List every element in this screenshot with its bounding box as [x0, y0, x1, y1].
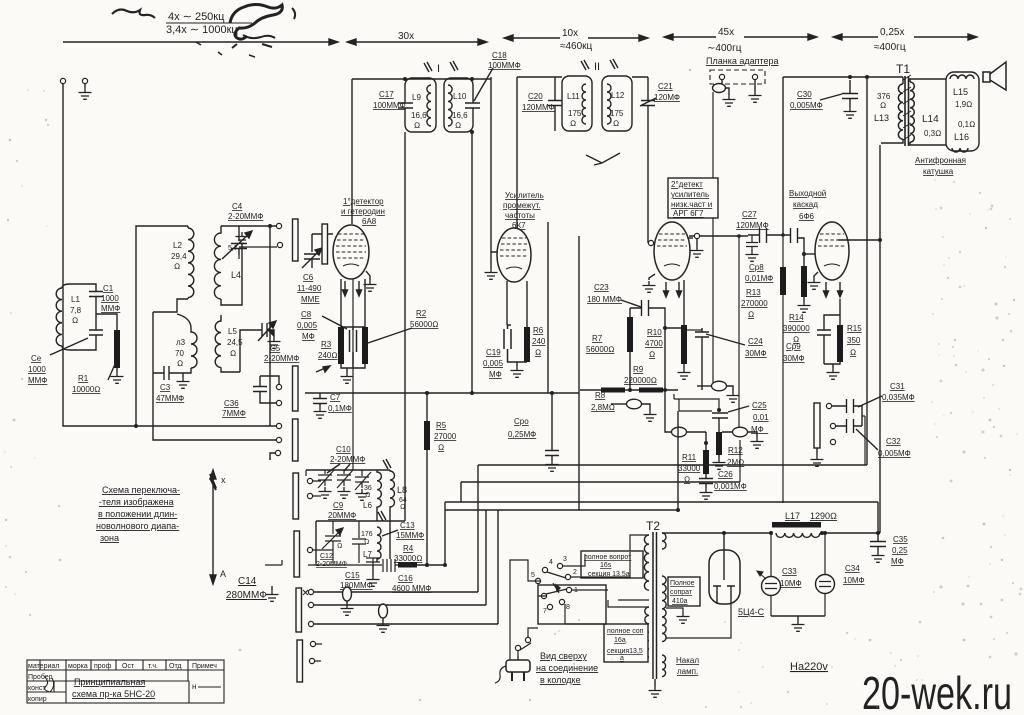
- svg-text:∼400гц: ∼400гц: [707, 43, 742, 54]
- ground 6K7 grid: [491, 252, 497, 268]
- switch wafer 7: [297, 640, 303, 682]
- svg-text:R15: R15: [847, 324, 862, 333]
- IF transformer I left box: [405, 78, 436, 132]
- svg-text:I: I: [437, 63, 440, 75]
- capacitor C18: [465, 103, 480, 109]
- ground C26: [700, 488, 713, 499]
- switch contact D: [276, 384, 281, 389]
- ground Cpo: [546, 460, 559, 471]
- pointer C23: [621, 300, 641, 307]
- svg-text:Ω: Ω: [613, 119, 619, 128]
- label 45x 400gc: [707, 25, 744, 54]
- svg-text:175: 175: [568, 109, 582, 118]
- C33 arrow: [757, 571, 766, 579]
- svg-text:10000Ω: 10000Ω: [72, 385, 100, 394]
- svg-text:С13: С13: [400, 521, 415, 530]
- svg-text:С35: С35: [893, 535, 908, 544]
- svg-text:С33: С33: [782, 567, 797, 576]
- svg-text:240Ω: 240Ω: [318, 351, 338, 360]
- wire C6 grid: [312, 233, 333, 235]
- coil L10: [448, 85, 452, 126]
- ground 6K7 cathode: [511, 366, 524, 377]
- coil L15: [950, 75, 974, 79]
- svg-text:Ω: Ω: [535, 348, 541, 357]
- svg-text:5: 5: [531, 572, 535, 579]
- bus y510: [445, 509, 678, 511]
- svg-text:Ост: Ост: [122, 663, 135, 670]
- svg-text:0,005: 0,005: [483, 359, 504, 368]
- ground 6A8: [366, 271, 370, 280]
- selector levers: [546, 572, 567, 594]
- svg-text:С15: С15: [345, 571, 360, 580]
- wire C31 to bus: [862, 416, 865, 465]
- svg-text:Ω: Ω: [748, 310, 754, 319]
- svg-text:6Ф6: 6Ф6: [799, 212, 815, 221]
- svg-text:56000Ω: 56000Ω: [410, 320, 438, 329]
- svg-text:1°детектор: 1°детектор: [343, 197, 384, 206]
- wire C21 down to 6G7 grid: [647, 131, 649, 243]
- svg-text:1290Ω: 1290Ω: [810, 511, 837, 521]
- svg-text:7ММФ: 7ММФ: [222, 409, 246, 418]
- svg-text:0,1МФ: 0,1МФ: [328, 404, 352, 413]
- label 4x 250kc: [166, 11, 252, 36]
- svg-text:4x ∼ 250кц: 4x ∼ 250кц: [168, 11, 225, 23]
- svg-text:проф: проф: [94, 663, 112, 670]
- pointer C21: [640, 98, 656, 106]
- svg-text:0,005: 0,005: [297, 321, 318, 330]
- pointer C30: [820, 94, 842, 100]
- svg-text:410а: 410а: [672, 598, 688, 605]
- ground adapter left: [723, 95, 736, 106]
- svg-text:L12: L12: [611, 91, 625, 100]
- T2 secondary top: [662, 533, 666, 549]
- pointer R2: [368, 328, 412, 343]
- svg-text:L13: L13: [874, 113, 889, 123]
- svg-text:С32: С32: [886, 437, 901, 446]
- wave switch mark: [586, 153, 620, 165]
- svg-text:x: x: [221, 475, 226, 485]
- svg-text:L15: L15: [953, 87, 968, 97]
- svg-text:С4: С4: [232, 202, 243, 211]
- wire cathode bottom: [341, 364, 365, 368]
- core mark L6: [383, 459, 391, 469]
- label winding2: [604, 624, 648, 662]
- svg-text:Сро: Сро: [514, 417, 529, 426]
- svg-text:МФ: МФ: [302, 332, 315, 341]
- wire stage2 box right: [547, 222, 549, 393]
- wire L5 to C5: [240, 330, 255, 372]
- svg-text:220000Ω: 220000Ω: [624, 376, 657, 385]
- node dot L2 bus: [134, 424, 138, 428]
- capacitor C7: [313, 393, 327, 407]
- IF transformer I right box: [444, 78, 473, 132]
- core mark L7: [378, 511, 386, 521]
- pointer C32: [856, 429, 878, 450]
- capacitor C32: [836, 419, 862, 433]
- svg-text:Накал: Накал: [676, 656, 699, 665]
- wire L6 bottom: [376, 511, 378, 521]
- svg-text:350: 350: [847, 336, 861, 345]
- svg-text:≈400гц: ≈400гц: [874, 42, 906, 53]
- capacitor C4 variable: [222, 226, 252, 259]
- wire AVC net: [674, 394, 719, 411]
- svg-text:-теля изображена: -теля изображена: [99, 497, 174, 507]
- svg-text:3,4x ∼ 1000кц: 3,4x ∼ 1000кц: [166, 24, 238, 36]
- svg-text:Вид сверху: Вид сверху: [540, 651, 587, 661]
- core marks II: [581, 59, 618, 70]
- svg-text:н: н: [192, 682, 196, 691]
- svg-text:полное соп: полное соп: [607, 628, 644, 635]
- switch wafer 5: [294, 531, 300, 577]
- contacts wafer7: [310, 641, 315, 646]
- coil L16: [952, 148, 968, 152]
- line y592: [314, 591, 478, 593]
- ground cathode: [346, 368, 348, 372]
- resistor R6: [524, 327, 530, 362]
- wire x405 lower: [404, 521, 406, 559]
- svg-text:7: 7: [543, 608, 547, 615]
- svg-text:Примеч: Примеч: [192, 663, 217, 670]
- line y624: [314, 510, 498, 624]
- svg-text:L11: L11: [567, 92, 580, 101]
- resistor R11: [703, 450, 709, 474]
- variable capacitor C12: [322, 521, 343, 563]
- x mark: [303, 590, 308, 595]
- wire contact E: [270, 453, 276, 460]
- wire choke out: [821, 532, 878, 534]
- bus y502: [445, 501, 878, 503]
- svg-text:Ω: Ω: [649, 350, 655, 359]
- svg-text:390000: 390000: [783, 324, 810, 333]
- svg-text:8: 8: [566, 604, 570, 611]
- svg-text:усилитель: усилитель: [671, 190, 709, 199]
- svg-text:100ММФ: 100ММФ: [488, 61, 521, 70]
- ground terminal: [82, 78, 87, 83]
- capacitor C20: [548, 77, 562, 131]
- svg-text:С19: С19: [486, 348, 501, 357]
- svg-text:0,01МФ: 0,01МФ: [745, 274, 773, 283]
- wire adapter down: [712, 92, 714, 386]
- svg-text:С3: С3: [160, 383, 171, 392]
- bus y393: [305, 392, 579, 394]
- adapter contact left: [719, 74, 724, 79]
- svg-text:Ω: Ω: [230, 349, 236, 358]
- svg-text:30x: 30x: [398, 31, 414, 42]
- coil L8: [390, 470, 395, 511]
- ground L3: [182, 373, 184, 377]
- wire C23 node: [630, 308, 665, 390]
- svg-text:L9: L9: [412, 93, 421, 102]
- mains cord: [495, 666, 506, 683]
- scan smudge top-left: [112, 10, 155, 18]
- ground under terminal: [84, 84, 86, 88]
- resistor R12: [716, 432, 722, 455]
- svg-text:частоты: частоты: [505, 211, 535, 220]
- svg-text:С30: С30: [797, 90, 812, 99]
- coil L13: [898, 84, 903, 139]
- capacitor Cpo: [545, 393, 559, 460]
- dimension arrow 45x: [664, 34, 817, 40]
- tube 6G7 grid pin: [648, 240, 653, 245]
- svg-text:33000Ω: 33000Ω: [394, 554, 422, 563]
- svg-text:0,25: 0,25: [892, 546, 908, 555]
- svg-text:L8: L8: [397, 485, 407, 495]
- pointer C13: [382, 530, 398, 536]
- adapter jack: [721, 80, 723, 84]
- coil L11: [582, 84, 586, 124]
- transformer T1 core: [905, 76, 909, 146]
- svg-text:в колодке: в колодке: [540, 675, 581, 685]
- speaker coil box: [946, 72, 979, 151]
- svg-text:Ср8: Ср8: [749, 263, 764, 272]
- bus y482: [461, 481, 740, 483]
- dimension arrow 4x~250kc: [63, 39, 338, 45]
- svg-text:2,8МΩ: 2,8МΩ: [591, 403, 615, 412]
- svg-text:20-wek.ru: 20-wek.ru: [862, 667, 1012, 715]
- svg-text:ММФ: ММФ: [101, 304, 120, 313]
- coil L9: [427, 85, 431, 126]
- T2 primary lower: [645, 607, 649, 657]
- node dot plate: [878, 238, 882, 242]
- switch contact A: [276, 223, 281, 228]
- node dots bus: [628, 388, 632, 392]
- ground between L4 L5: [221, 244, 242, 305]
- svg-text:С27: С27: [742, 210, 757, 219]
- svg-text:70: 70: [175, 349, 184, 358]
- svg-text:С14: С14: [238, 576, 257, 587]
- svg-text:секция13,5: секция13,5: [607, 648, 643, 655]
- ground 6F6 cathode: [827, 368, 840, 379]
- svg-text:56000Ω: 56000Ω: [586, 345, 614, 354]
- switch wafer 1: [293, 219, 299, 261]
- svg-text:16,6: 16,6: [411, 111, 427, 120]
- ground R14: [798, 301, 811, 312]
- svg-text:R12: R12: [728, 446, 743, 455]
- selector contacts: [542, 567, 547, 572]
- svg-text:0,005МФ: 0,005МФ: [878, 449, 911, 458]
- svg-text:L1: L1: [71, 295, 80, 304]
- svg-text:120ММФ: 120ММФ: [522, 103, 555, 112]
- wire L2 to L3: [153, 299, 188, 312]
- svg-text:Ω: Ω: [438, 443, 444, 452]
- svg-text:II: II: [594, 61, 600, 73]
- variable capacitor C9b: [337, 470, 353, 488]
- wire 6F6 cathode: [824, 299, 840, 330]
- variable capacitor C9a: [318, 470, 334, 488]
- svg-text:16,6: 16,6: [452, 111, 468, 120]
- svg-text:0,25МФ: 0,25МФ: [508, 430, 536, 439]
- ground R8: [644, 410, 657, 421]
- wire x579 down: [578, 236, 580, 510]
- wire contact D: [260, 376, 279, 384]
- svg-text:копир: копир: [28, 696, 47, 703]
- wire stage1 box right: [490, 77, 492, 252]
- svg-text:180 ММФ: 180 ММФ: [587, 295, 622, 304]
- svg-text:2-20ММФ: 2-20ММФ: [330, 455, 365, 464]
- svg-text:R1: R1: [78, 374, 89, 383]
- capacitor C30: [842, 80, 858, 107]
- svg-text:R2: R2: [416, 309, 427, 318]
- switch contact C36: [276, 400, 281, 405]
- svg-text:Ср9: Ср9: [786, 342, 801, 351]
- box osc lower: [316, 521, 405, 563]
- ground R12: [713, 458, 726, 469]
- svg-text:Се: Се: [31, 354, 42, 363]
- svg-text:Ω: Ω: [414, 121, 420, 130]
- svg-text:R10: R10: [647, 328, 662, 337]
- resistor R14: [801, 266, 807, 297]
- resistor R5: [424, 421, 430, 450]
- pointer C18: [474, 68, 493, 101]
- oval cap y592: [346, 588, 348, 592]
- choke L17: [772, 522, 821, 528]
- table header text: [28, 663, 221, 703]
- bus y465: [478, 464, 867, 466]
- contacts wafer45: [307, 478, 312, 483]
- coil L1: [62, 284, 92, 350]
- node dot Cpo: [550, 391, 554, 395]
- resistor R9: [639, 388, 663, 393]
- wire R10 top: [683, 280, 685, 325]
- coil L12: [607, 84, 611, 124]
- ground adapter right: [754, 80, 756, 91]
- svg-text:АРГ 6Г7: АРГ 6Г7: [673, 209, 704, 218]
- bus y390 with resistors: [580, 389, 678, 391]
- switch contact bus2: [276, 437, 281, 442]
- switch wafer gang: [322, 224, 328, 264]
- tube 6G7: [654, 222, 690, 280]
- svg-text:R7: R7: [592, 334, 603, 343]
- capacitor C28b: [782, 228, 804, 254]
- title block table: [27, 660, 224, 703]
- svg-text:С36: С36: [224, 399, 239, 408]
- svg-text:Ω: Ω: [850, 348, 856, 357]
- svg-text:Ω: Ω: [365, 492, 370, 499]
- wire 6F6 plate to top: [838, 239, 880, 241]
- capacitor C36: [253, 381, 267, 397]
- ground C14: [271, 586, 273, 590]
- AVC oval left: [672, 427, 687, 437]
- svg-text:120ММФ: 120ММФ: [736, 221, 769, 230]
- node dots R5: [425, 391, 429, 395]
- capacitor C3: [153, 366, 191, 380]
- svg-text:27000: 27000: [434, 432, 457, 441]
- capacitor C5 variable: [255, 321, 276, 341]
- svg-text:материал: материал: [28, 663, 59, 670]
- voltage selector box: [538, 585, 606, 624]
- tube 6F6: [815, 222, 849, 280]
- svg-text:L2: L2: [173, 241, 182, 250]
- wire cathode down left: [340, 279, 342, 327]
- T2 primary taps: [608, 535, 649, 657]
- table signature: [44, 676, 54, 692]
- wire T2 to rectifier: [662, 532, 771, 534]
- svg-text:ламп.: ламп.: [677, 667, 698, 676]
- capacitor C28: [746, 235, 758, 250]
- switch wafer 6: [296, 588, 302, 632]
- ground C5: [268, 337, 281, 348]
- wire 6G7 plate to C27: [689, 235, 748, 237]
- svg-text:новолнового диапа-: новолнового диапа-: [96, 521, 179, 531]
- capacitor C27: [748, 228, 782, 243]
- ground C30: [844, 107, 857, 118]
- pointer C10: [327, 464, 350, 473]
- wire 6K7 cathode left: [506, 281, 508, 325]
- svg-text:L6: L6: [363, 501, 372, 510]
- wire C24 top: [687, 329, 702, 331]
- svg-text:С12: С12: [320, 553, 333, 560]
- wire x445: [444, 502, 446, 565]
- svg-text:и гетеродин: и гетеродин: [341, 207, 385, 216]
- svg-text:16а: 16а: [614, 637, 626, 644]
- wire 6K7 cathode bottom: [507, 362, 527, 366]
- svg-text:100ММФ: 100ММФ: [373, 101, 406, 110]
- node dot R4: [443, 563, 447, 567]
- svg-text:1,9Ω: 1,9Ω: [955, 100, 972, 109]
- svg-text:0,035МФ: 0,035МФ: [882, 393, 915, 402]
- capacitor C1: [89, 284, 103, 350]
- svg-text:низк.част и: низк.част и: [671, 200, 712, 209]
- svg-text:L4: L4: [231, 270, 241, 280]
- svg-text:270000: 270000: [741, 299, 768, 308]
- B+ top wire: [783, 76, 903, 78]
- label winding1: [581, 551, 643, 578]
- svg-text:R4: R4: [403, 544, 414, 553]
- svg-text:2°детект: 2°детект: [671, 180, 703, 189]
- wire cathode bottom: [824, 362, 840, 368]
- svg-text:R6: R6: [533, 326, 544, 335]
- node dot x270: [268, 224, 272, 228]
- svg-text:Антифронная: Антифронная: [915, 156, 966, 165]
- ground C35: [872, 551, 885, 562]
- wire 6K7 plate to top: [517, 77, 555, 229]
- label winding3: [668, 577, 700, 606]
- svg-text:R3: R3: [321, 340, 332, 349]
- oval cap y605: [379, 604, 388, 618]
- wire C4 node: [239, 247, 277, 259]
- speaker horn: [983, 62, 1006, 90]
- svg-text:морка: морка: [68, 663, 88, 670]
- pointer C2: [50, 338, 88, 355]
- AVC box left: [677, 411, 679, 510]
- svg-text:64: 64: [399, 497, 407, 504]
- svg-text:L14: L14: [922, 114, 939, 125]
- resistor R10: [681, 325, 687, 364]
- svg-text:L10: L10: [453, 92, 467, 101]
- wire rectifier filament: [666, 604, 731, 638]
- ground filter: [797, 616, 799, 620]
- svg-text:Ω: Ω: [177, 359, 183, 368]
- capacitor C17: [398, 103, 413, 109]
- svg-text:0,005МФ: 0,005МФ: [790, 101, 823, 110]
- coil L2: [188, 226, 194, 299]
- ground 6F6 left: [814, 272, 818, 278]
- switch contact bus1: [276, 423, 281, 428]
- wire x740: [739, 437, 741, 482]
- svg-text:Схема переключа-: Схема переключа-: [102, 485, 180, 495]
- svg-text:L16: L16: [954, 132, 969, 142]
- svg-text:2-20ММФ: 2-20ММФ: [264, 354, 299, 363]
- svg-text:МФ: МФ: [891, 557, 904, 566]
- svg-text:376: 376: [877, 92, 891, 101]
- svg-text:зона: зона: [100, 533, 119, 543]
- pointer C31: [858, 396, 882, 407]
- svg-text:Т2: Т2: [646, 519, 660, 533]
- node dots IF1: [403, 77, 407, 81]
- svg-text:Т1: Т1: [896, 62, 910, 76]
- svg-text:Пробер: Пробер: [28, 673, 53, 681]
- svg-text:R13: R13: [746, 288, 761, 297]
